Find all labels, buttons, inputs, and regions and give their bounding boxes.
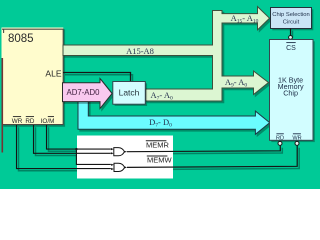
- chip selection circuit box U3: [272, 9, 313, 30]
- wire IO/M from 8085 to gate G1: [47, 125, 111, 149]
- svg-text:Circuit: Circuit: [283, 20, 300, 26]
- wire RD from 8085 to gate G1: [34, 125, 111, 153]
- svg-text:A7- A0: A7- A0: [151, 90, 174, 102]
- latch U2: [115, 83, 148, 106]
- svg-text:A15-A8: A15-A8: [126, 46, 154, 56]
- inverter bubble chip WR: [295, 141, 299, 145]
- junction dot: [75, 148, 77, 150]
- svg-text:D7- D0: D7- D0: [149, 117, 172, 129]
- svg-text:ALE: ALE: [45, 68, 61, 78]
- svg-text:AD7-AD0: AD7-AD0: [67, 88, 101, 97]
- svg-text:RD: RD: [276, 135, 284, 141]
- svg-text:RD: RD: [25, 118, 35, 125]
- svg-text:WR: WR: [12, 118, 23, 125]
- svg-text:Chip Selection: Chip Selection: [272, 12, 309, 18]
- wire WR from 8085 to gate G2: [17, 125, 111, 169]
- svg-text:Chip: Chip: [283, 89, 298, 98]
- wire MEMW to chip WR: [127, 146, 297, 168]
- inverter bubble chip RD: [278, 141, 282, 145]
- svg-text:8085: 8085: [8, 33, 34, 45]
- gate G2 (MEMW): [114, 163, 125, 171]
- maroon edge line: [2, 58, 4, 153]
- wire CS drop: [290, 29, 292, 36]
- svg-text:A9- A0: A9- A0: [225, 77, 248, 89]
- multiplexed bus arrow AD7-AD0 (pink): [64, 80, 114, 110]
- data bus D7-D0 (cyan): [80, 102, 272, 136]
- wire MEMR to chip RD: [127, 146, 280, 152]
- memory chip U4: [271, 41, 315, 142]
- svg-text:MEMW: MEMW: [147, 156, 172, 165]
- wire IO/M branch to gate G2: [76, 149, 110, 164]
- inverter bubble on CS: [289, 36, 293, 40]
- wire ALE to latch: [63, 73, 131, 82]
- cpu 8085 box U1: [3, 29, 65, 127]
- wire shadows: [19, 31, 300, 171]
- address bus A15-A8 / A15-A10 / A9-A0 / A7-A0 (light green union): [65, 8, 271, 102]
- gate G1 (MEMR): [114, 148, 125, 156]
- svg-text:MEMR: MEMR: [146, 140, 169, 149]
- svg-text:CS: CS: [286, 45, 296, 52]
- svg-text:Latch: Latch: [119, 87, 140, 97]
- svg-text:WR: WR: [292, 135, 301, 141]
- white gate panel: [77, 136, 173, 179]
- svg-text:IO/M: IO/M: [41, 118, 55, 125]
